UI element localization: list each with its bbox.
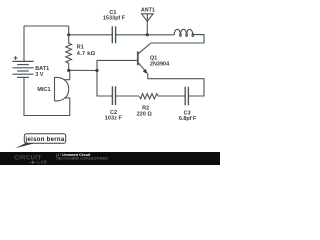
capacitor C3: [185, 87, 188, 106]
wire top horizontal: [24, 25, 69, 27]
svg-text:http://circuitlab.com/c/ac3478: http://circuitlab.com/c/ac3478de2: [57, 156, 108, 160]
wire node B down to bottom row: [97, 71, 112, 97]
transistor emitter arrow: [143, 69, 148, 74]
microphone MIC1: [55, 77, 70, 101]
wire node A to C1: [69, 34, 113, 36]
capacitor C2: [112, 86, 115, 105]
svg-text:–◆–LAB: –◆–LAB: [29, 160, 47, 165]
svg-text:6.8pf F: 6.8pf F: [179, 116, 197, 122]
svg-text:1533pf F: 1533pf F: [103, 16, 126, 22]
wire mic top stub: [69, 70, 71, 79]
wire C1 to antenna node to inductor: [116, 34, 173, 36]
capacitor C1: [112, 26, 115, 43]
wire node C to node B: [69, 69, 97, 71]
wire down to node A: [68, 26, 70, 35]
svg-text:2N3904: 2N3904: [150, 62, 170, 68]
node ANT junction dot: [146, 33, 149, 36]
antenna ANT1: [142, 14, 154, 35]
svg-text:ANT1: ANT1: [141, 7, 155, 13]
svg-text:BAT1: BAT1: [35, 66, 49, 72]
node B junction dot: [95, 69, 98, 72]
battery plus sign: [14, 56, 18, 60]
wire battery top lead: [23, 26, 25, 61]
svg-text:220 Ω: 220 Ω: [137, 111, 153, 117]
svg-text:3 V: 3 V: [35, 72, 44, 78]
svg-text:4.7 kΩ: 4.7 kΩ: [77, 51, 96, 57]
wire C3 right up to emitter: [148, 74, 204, 96]
resistor R1: [66, 35, 72, 71]
footer bar: [0, 152, 220, 165]
wire base: node B up and right to Q1 base: [97, 60, 138, 70]
author bubble tail: [15, 143, 34, 149]
wire inductor right to collector: [151, 35, 205, 43]
wire C2 to R2: [116, 95, 140, 97]
wire battery bottom to mic bottom: [24, 77, 70, 115]
resistor R2: [139, 94, 158, 99]
node C junction dot: [67, 69, 70, 72]
svg-text:jeison berna: jeison berna: [25, 137, 65, 143]
svg-text:MIC1: MIC1: [37, 87, 50, 93]
author bubble: [24, 134, 65, 144]
svg-text:R1: R1: [77, 44, 84, 50]
node A junction dot: [67, 33, 70, 36]
wire R2 to C3: [159, 95, 186, 97]
inductor L: [172, 29, 204, 36]
svg-text:103z F: 103z F: [105, 116, 123, 122]
battery BAT1: [12, 61, 33, 77]
transistor Q1 2N3904: [138, 43, 151, 74]
